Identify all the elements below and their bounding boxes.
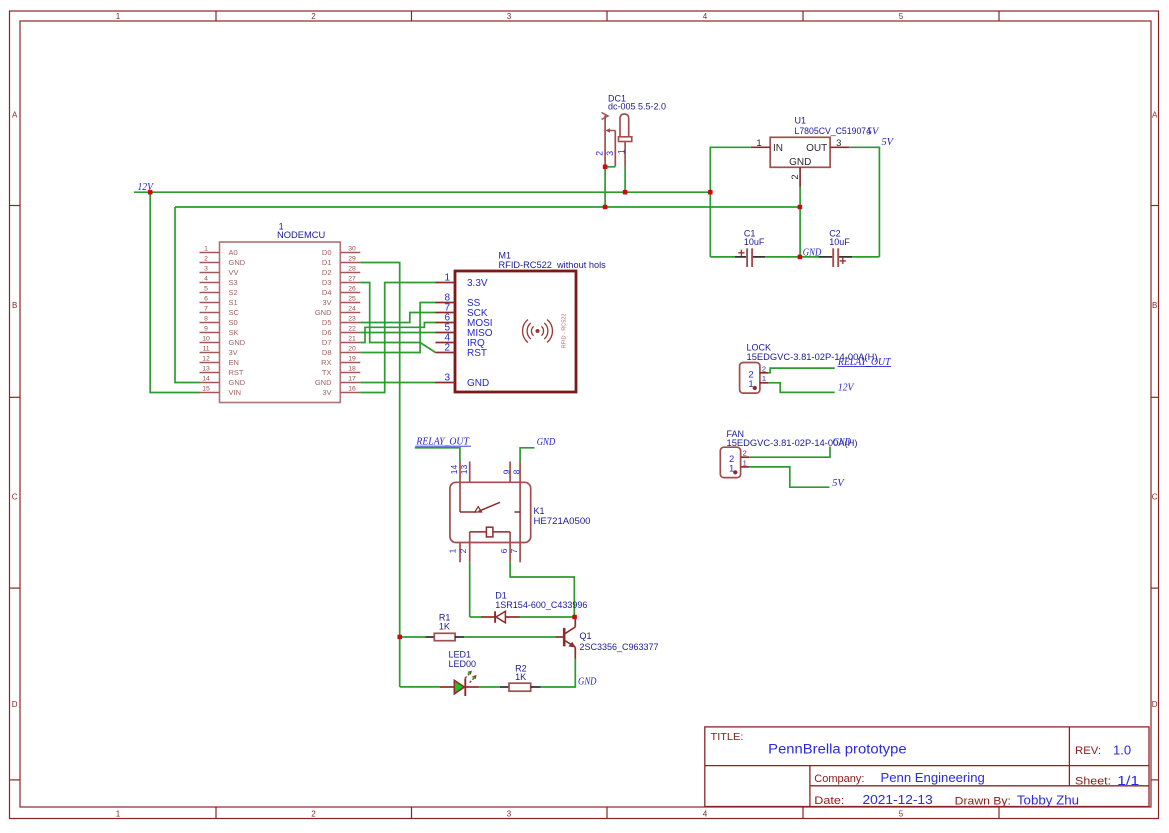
wire LED to R2 [479,686,500,688]
svg-text:C: C [12,493,18,502]
connector DC1 dc-005 5.5-2.0 [594,94,666,167]
svg-text:RFID-RC522_without hols: RFID-RC522_without hols [499,260,607,270]
svg-text:1K: 1K [439,622,450,632]
svg-text:EN: EN [229,358,239,367]
svg-text:23: 23 [348,316,356,323]
svg-text:27: 27 [348,276,356,283]
svg-text:1SR154-600_C433996: 1SR154-600_C433996 [495,600,587,610]
svg-text:18: 18 [348,366,356,373]
svg-text:D8: D8 [322,348,332,357]
svg-text:2: 2 [311,12,316,21]
svg-text:S0: S0 [229,318,238,327]
wire RELAY_OUT to relay pin14 [415,448,460,462]
svg-text:C: C [1152,493,1158,502]
transistor Q1 2SC3356 [556,620,659,659]
svg-text:Company:: Company: [814,773,864,785]
svg-text:8: 8 [511,469,521,474]
wire Q1 collector up [574,617,576,620]
wire Q1 emitter to GND row [541,659,576,688]
svg-text:GND: GND [315,378,332,387]
wire GND to pin14 [175,207,200,383]
svg-text:3: 3 [836,138,841,149]
svg-text:GND: GND [229,378,246,387]
svg-text:21: 21 [348,336,356,343]
wire LED row from D1 net [400,686,440,688]
svg-text:VIN: VIN [229,388,242,397]
svg-text:REV:: REV: [1075,745,1101,757]
connector LOCK 15EDGVC-3.81-02P [740,342,878,393]
capacitor C1 10uF [735,228,765,267]
svg-text:D7: D7 [322,338,332,347]
svg-text:7: 7 [509,548,519,553]
svg-text:1: 1 [756,138,761,149]
wire 12V rail [134,191,710,193]
wire U1 GND pin down [799,187,801,257]
svg-text:Drawn By:: Drawn By: [955,796,1011,808]
junction 12V / IN [708,190,713,195]
junction DC1 GND [603,205,608,210]
svg-text:D6: D6 [322,328,332,337]
junction 12V [148,190,153,195]
svg-text:B: B [1152,301,1157,310]
svg-text:GND: GND [578,677,597,688]
svg-text:D5: D5 [322,318,332,327]
svg-text:2SC3356_C963377: 2SC3356_C963377 [580,642,659,652]
svg-text:13: 13 [459,465,469,475]
wire D7(21) to MOSI [360,323,435,343]
svg-text:26: 26 [348,286,356,293]
wire D6(22) to MISO [360,332,435,334]
svg-text:1: 1 [444,273,450,284]
svg-text:1: 1 [743,459,747,468]
svg-text:dc-005 5.5-2.0: dc-005 5.5-2.0 [608,102,666,112]
svg-text:B: B [12,301,17,310]
svg-text:GND: GND [833,437,852,448]
svg-text:5V: 5V [882,137,895,148]
svg-text:A: A [1152,111,1158,120]
svg-text:6: 6 [499,548,509,553]
svg-text:10uF: 10uF [829,237,850,247]
svg-text:2021-12-13: 2021-12-13 [863,792,933,807]
wire D5(23) to SCK [360,313,435,323]
svg-text:D0: D0 [322,248,332,257]
svg-text:14: 14 [449,465,459,475]
svg-text:D1: D1 [322,258,332,267]
relay K1 HE721A0500 [448,462,591,563]
svg-text:D3: D3 [322,278,332,287]
wire LOCK pin1 to 12V [768,383,834,393]
wire D1(29) to RELAY_OUT net / R1 / LED [360,263,399,687]
svg-text:1: 1 [448,548,458,553]
title block [705,727,1149,807]
svg-text:8: 8 [204,316,208,323]
junction DC1 pins 2-3 [603,165,608,170]
svg-text:12V: 12V [838,382,855,393]
wire 12V to VIN [150,192,199,392]
svg-text:3: 3 [444,373,450,384]
svg-text:A0: A0 [229,248,238,257]
wire D1 cathode row [520,616,574,618]
wire 12V to U1 IN [710,147,751,257]
svg-text:2: 2 [311,810,316,819]
svg-text:1K: 1K [515,672,526,682]
svg-text:3: 3 [605,151,615,156]
svg-text:K1: K1 [534,506,545,516]
wire DC1 pin1 to 12V rail [624,167,626,193]
svg-text:D: D [12,700,18,709]
wire cap row left [710,256,735,258]
wire FAN pin1 to 5V [749,467,829,487]
svg-text:13: 13 [202,366,210,373]
svg-text:SK: SK [229,328,239,337]
svg-text:Penn Engineering: Penn Engineering [881,770,985,785]
svg-text:L7805CV_C519074: L7805CV_C519074 [795,126,872,136]
wire relay pin2 to D1 anode [469,562,471,617]
svg-text:5V: 5V [867,126,880,137]
svg-text:3V: 3V [229,348,238,357]
svg-text:22: 22 [348,326,356,333]
svg-text:1: 1 [616,149,626,154]
svg-text:3: 3 [507,12,512,21]
wire DC1 pins 2-3 tie [605,166,615,168]
svg-text:S2: S2 [229,288,238,297]
wire D1(29) net to R1 [400,636,426,638]
svg-text:Q1: Q1 [580,631,592,641]
wire GND(17) to M1 GND [360,382,435,384]
svg-text:4: 4 [703,12,708,21]
svg-text:S3: S3 [229,278,238,287]
svg-text:1: 1 [116,12,121,21]
svg-text:LED00: LED00 [449,659,477,669]
svg-text:30: 30 [348,246,356,253]
svg-text:29: 29 [348,256,356,263]
wire cap row mid [765,256,819,258]
svg-text:20: 20 [348,346,356,353]
module M1 RFID-RC522 [436,251,607,393]
svg-text:5V: 5V [832,478,845,489]
junction U1 GND / rail [798,205,803,210]
svg-text:GND: GND [315,308,332,317]
svg-text:9: 9 [204,326,208,333]
svg-text:7: 7 [204,306,208,313]
svg-text:19: 19 [348,356,356,363]
svg-text:RST: RST [229,368,244,377]
svg-text:OUT: OUT [806,143,827,154]
svg-text:5: 5 [899,12,904,21]
LED LED1 LED00 [440,650,479,697]
svg-text:A: A [12,111,18,120]
svg-text:1: 1 [762,374,766,383]
wire cap row right [852,256,879,258]
svg-text:10: 10 [202,336,210,343]
svg-text:24: 24 [348,306,356,313]
svg-text:6: 6 [204,296,208,303]
svg-text:2: 2 [444,343,450,354]
svg-text:HE721A0500: HE721A0500 [534,516,591,526]
svg-text:TX: TX [322,368,332,377]
svg-text:11: 11 [202,346,209,353]
svg-text:3: 3 [507,810,512,819]
svg-text:2: 2 [790,174,801,179]
svg-text:1: 1 [116,810,121,819]
svg-text:4: 4 [204,276,208,283]
svg-text:GND: GND [229,338,246,347]
regulator U1 L7805CV [751,116,871,188]
resistor R2 1K [500,663,541,691]
svg-text:3V: 3V [322,298,331,307]
junction D1/K1/Q1 [572,615,577,620]
svg-text:GND: GND [537,437,556,448]
svg-text:GND: GND [789,157,811,168]
diode D1 1SR154-600 [470,590,588,623]
svg-text:17: 17 [348,376,356,383]
svg-text:NODEMCU: NODEMCU [277,230,325,240]
svg-text:1: 1 [204,246,208,253]
svg-text:D1: D1 [495,590,507,600]
svg-text:2: 2 [743,449,747,458]
svg-text:SC: SC [229,308,240,317]
svg-text:2: 2 [594,151,604,156]
svg-text:D: D [1152,700,1158,709]
junction DC1 12V [623,190,628,195]
wire GND rail [175,206,800,208]
svg-text:10uF: 10uF [744,237,765,247]
svg-text:LOCK: LOCK [747,342,772,352]
svg-text:3.3V: 3.3V [467,278,488,289]
junction GND node [798,255,803,260]
svg-text:RST: RST [467,348,487,359]
connector FAN 15EDGVC-3.81-02P [720,429,857,478]
svg-text:16: 16 [348,386,356,393]
svg-text:1/1: 1/1 [1117,774,1139,788]
wire 3V(16) to M1 3.3V [360,283,435,393]
svg-text:TITLE:: TITLE: [711,732,744,743]
svg-text:12: 12 [202,356,210,363]
svg-text:28: 28 [348,266,356,273]
svg-text:GND: GND [467,378,489,389]
svg-text:5: 5 [899,810,904,819]
svg-text:2: 2 [458,548,468,553]
svg-text:1.0: 1.0 [1113,744,1131,758]
svg-text:15: 15 [202,386,210,393]
svg-text:VV: VV [229,268,239,277]
wire D3(27) to RST [360,283,435,353]
svg-text:IN: IN [773,143,783,154]
svg-text:RFID - RC522: RFID - RC522 [562,314,568,349]
resistor R1 1K [425,612,464,640]
svg-text:PennBrella prototype: PennBrella prototype [768,742,906,757]
svg-text:9: 9 [501,469,511,474]
wire DC1 sleeve to GND rail [604,167,606,207]
svg-text:2: 2 [762,364,766,373]
wire LOCK pin2 to RELAY_OUT [768,368,834,373]
svg-text:3V: 3V [322,388,331,397]
wire FAN pin2 to GND [749,447,830,458]
svg-text:3: 3 [204,266,208,273]
svg-text:25: 25 [348,296,356,303]
svg-text:U1: U1 [795,116,807,126]
capacitor C2 10uF [819,228,852,267]
svg-text:5: 5 [204,286,208,293]
svg-text:LED1: LED1 [449,650,472,660]
svg-text:Date:: Date: [814,795,844,807]
wire relay pin6 to D1 cathode node [510,562,574,617]
svg-text:D4: D4 [322,288,332,297]
IC NODEMCU (designator 1) [200,222,361,403]
svg-text:2: 2 [204,256,208,263]
svg-text:Tobby Zhu: Tobby Zhu [1017,793,1079,808]
junction R1 branch [397,635,402,640]
svg-text:14: 14 [202,376,210,383]
svg-text:D2: D2 [322,268,332,277]
svg-text:4: 4 [703,810,708,819]
svg-text:S1: S1 [229,298,238,307]
svg-text:GND: GND [229,258,246,267]
wire R1 to Q1 base [464,636,555,638]
svg-text:Sheet:: Sheet: [1075,775,1111,787]
wire U1 OUT 5V [849,147,879,257]
svg-text:RX: RX [321,358,331,367]
wire D8(20) to SS [360,303,435,353]
svg-text:M1: M1 [499,251,512,261]
wire GND to relay pin8 [520,448,534,462]
